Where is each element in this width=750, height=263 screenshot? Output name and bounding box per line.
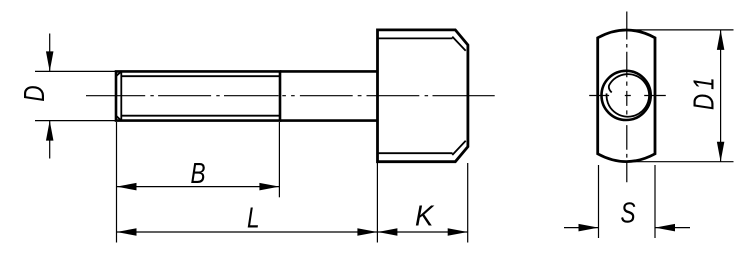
- head inner edge bottom: [378, 141, 466, 155]
- dimension B arrows: [117, 183, 137, 191]
- head outline: [378, 30, 468, 162]
- S extension lines: [599, 165, 656, 238]
- thread root lines: [121, 76, 280, 116]
- dimension D1 line: [720, 30, 722, 162]
- extension line head left: [376, 163, 378, 243]
- thread outer profile: [116, 71, 280, 120]
- thread chamfer vertical: [120, 71, 122, 120]
- svg-text:B: B: [190, 156, 205, 189]
- svg-text:S: S: [620, 196, 636, 229]
- D1 extension lines: [630, 30, 734, 162]
- thread end face line: [115, 71, 117, 120]
- svg-text:D: D: [17, 85, 50, 101]
- dimension S lines outside: [564, 227, 690, 229]
- dimension D extension lines: [35, 71, 116, 120]
- dimension K arrows: [377, 228, 397, 236]
- dimension D arrow top: [46, 51, 54, 71]
- dimension B line: [117, 186, 280, 188]
- centerline of bolt axis: [86, 95, 495, 97]
- svg-text:L: L: [247, 201, 260, 234]
- thread chamfer diagonals: [116, 71, 121, 120]
- dimension L arrows: [117, 228, 137, 236]
- svg-text:K: K: [415, 199, 434, 232]
- dimension L line: [117, 231, 378, 233]
- dimension K line: [377, 231, 467, 233]
- head inner edge top: [378, 37, 466, 51]
- dimension D1 arrows: [717, 30, 725, 50]
- end view horizontal centerline: [589, 95, 666, 97]
- shank: [280, 71, 378, 120]
- extension line bolt left end: [116, 122, 118, 243]
- dimension S arrows: [579, 224, 599, 232]
- inner thread circle with gap: [607, 74, 650, 117]
- dimension B extension line right: [278, 122, 280, 197]
- dimension D arrow bottom: [46, 121, 54, 141]
- outer circle (thread OD): [602, 71, 651, 120]
- extension line head right: [467, 163, 469, 243]
- dimension D lines: [49, 34, 51, 159]
- end view body outline: [598, 30, 655, 162]
- svg-text:D1: D1: [687, 73, 720, 110]
- end view vertical centerline: [626, 12, 628, 183]
